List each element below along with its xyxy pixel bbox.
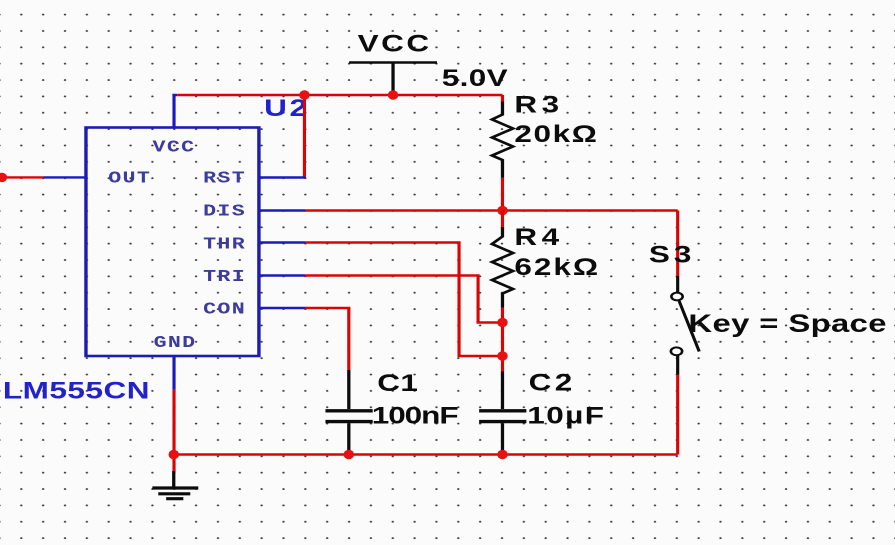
svg-text:VCC: VCC (153, 138, 196, 157)
svg-text:S3: S3 (649, 241, 695, 268)
capacitor C2 (479, 372, 526, 455)
svg-text:R4: R4 (514, 224, 563, 251)
svg-text:R3: R3 (514, 91, 563, 118)
ground symbol (152, 471, 198, 499)
resistor R4 (492, 211, 513, 323)
svg-text:DIS: DIS (203, 202, 246, 221)
wire R4 bottom to C2 (501, 323, 503, 373)
node junction THR (497, 351, 507, 360)
resistor R3 (492, 95, 513, 211)
wire DIS to R3/R4 node and switch (259, 209, 678, 211)
node junction C2 bottom (497, 450, 507, 459)
node junction C1 bottom (344, 450, 354, 459)
svg-text:RST: RST (203, 169, 246, 188)
capacitor C1 (325, 370, 372, 455)
wire GND pin down (173, 356, 175, 472)
wire CON to C1 (259, 308, 349, 371)
wire OUT (pin 3 to left edge) (0, 173, 87, 182)
wire THR to cap node (259, 243, 503, 357)
wire VCC pin to top rail (blue part) (172, 94, 177, 128)
IC U2 (LM555CN timer) body (86, 128, 259, 357)
node junction VCC tap (388, 90, 398, 99)
node junction GND (169, 450, 179, 459)
wire bottom rail (173, 453, 677, 455)
svg-text:LM555CN: LM555CN (3, 377, 150, 404)
svg-text:OUT: OUT (108, 169, 151, 188)
svg-text:C2: C2 (529, 369, 576, 396)
svg-text:100nF: 100nF (372, 402, 459, 429)
svg-text:5.0V: 5.0V (442, 65, 508, 92)
svg-text:20kΩ: 20kΩ (514, 121, 598, 148)
svg-text:C1: C1 (377, 369, 418, 396)
svg-text:GND: GND (154, 333, 197, 352)
svg-text:THR: THR (203, 235, 246, 254)
wire TRI to node (259, 276, 503, 323)
node junction R3/R4/DIS (497, 206, 507, 215)
node junction RST/VCC rail (299, 90, 309, 99)
svg-text:62kΩ: 62kΩ (514, 254, 600, 281)
svg-text:VCC: VCC (358, 30, 432, 57)
node junction TRI (497, 318, 507, 327)
wire RST riser (259, 95, 306, 178)
wire top rail (red) to R3 (177, 94, 502, 96)
svg-text:CON: CON (203, 300, 246, 319)
switch S3 (671, 211, 699, 455)
power VCC symbol (349, 63, 437, 96)
svg-text:10µF: 10µF (527, 402, 605, 429)
svg-text:TRI: TRI (203, 267, 246, 286)
svg-text:Key = Space: Key = Space (688, 311, 887, 338)
